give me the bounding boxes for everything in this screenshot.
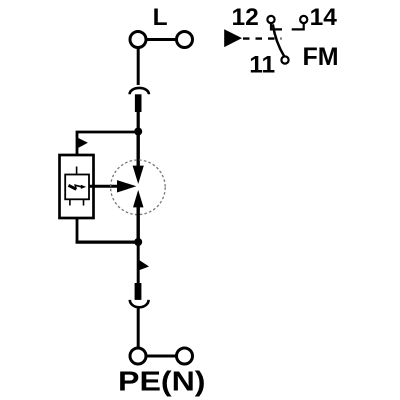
disconnect flag on branch bbox=[77, 138, 88, 149]
terminal 11 circle bbox=[281, 56, 288, 63]
wire from box bottom down bbox=[76, 218, 79, 244]
GDT bottom electrode stub 2 bbox=[83, 199, 85, 205]
wire pin to node A bbox=[137, 112, 140, 134]
node A junction dot bbox=[134, 128, 142, 136]
terminal L right bbox=[177, 32, 193, 48]
wire socket to PE terminal bbox=[137, 308, 140, 348]
svg-text:14: 14 bbox=[310, 4, 338, 31]
lightning arrow inside GDT bbox=[69, 185, 87, 190]
terminal 14 circle bbox=[300, 16, 307, 23]
wire node A to spark gap bbox=[136, 132, 139, 168]
GDT bottom electrode stub 1 bbox=[69, 199, 71, 205]
FM signal triangle bbox=[224, 29, 242, 47]
changeover contact arm bbox=[273, 24, 285, 56]
node B junction dot bbox=[134, 238, 142, 246]
wire spark gap to node B bbox=[136, 207, 139, 242]
trigger arrowhead bbox=[117, 180, 136, 192]
socket contact (female, top) bbox=[130, 88, 149, 94]
terminal PE right bbox=[177, 348, 193, 364]
terminal L left bbox=[130, 32, 146, 48]
trigger output wire bbox=[89, 185, 119, 188]
terminal 12 circle bbox=[267, 16, 274, 23]
spark gap electrode bottom bbox=[133, 190, 144, 208]
pin contact (male, top) bbox=[135, 94, 142, 112]
socket contact (female, bottom) bbox=[130, 300, 149, 307]
pin contact (male, bottom) bbox=[135, 283, 142, 300]
svg-text:L: L bbox=[153, 4, 168, 31]
spark gap electrode top bbox=[133, 166, 144, 184]
wire from L terminal down bbox=[137, 48, 140, 86]
terminal 12 lead bbox=[271, 23, 282, 29]
wire node B down bbox=[137, 242, 140, 284]
wire between PE terminals bbox=[146, 355, 177, 358]
wire between L terminals bbox=[146, 38, 177, 41]
wire branch left from node A bbox=[77, 132, 138, 156]
terminal PE left bbox=[130, 348, 146, 364]
gas discharge tube box bbox=[65, 175, 89, 200]
svg-text:PE(N): PE(N) bbox=[118, 366, 206, 397]
FM dashed link bbox=[243, 37, 282, 39]
svg-text:12: 12 bbox=[232, 4, 259, 31]
trigger circuit box bbox=[60, 155, 94, 218]
svg-text:11: 11 bbox=[249, 52, 275, 79]
disconnect flag on main line bbox=[138, 260, 149, 271]
GDT top electrode stub bbox=[76, 167, 78, 175]
svg-text:FM: FM bbox=[303, 43, 339, 71]
wire to node B bbox=[76, 241, 139, 244]
terminal 14 lead bbox=[292, 23, 304, 29]
dashed enclosure circle bbox=[111, 160, 166, 215]
